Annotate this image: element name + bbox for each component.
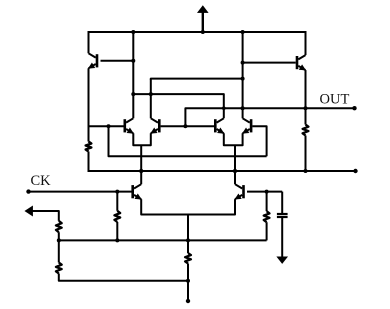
wire bottom rail <box>59 274 188 281</box>
ground VEE arrow <box>277 257 287 264</box>
junction dot Q2 base / node B <box>241 61 245 65</box>
wire H4 cross-couple <box>151 79 243 80</box>
transistor Q8 <box>235 184 245 199</box>
terminal dot OUT end <box>352 106 356 110</box>
wire pair1 tail <box>140 145 142 171</box>
svg-text:OUT: OUT <box>320 92 350 108</box>
wire OUT line <box>185 108 354 126</box>
power VCC arrow <box>198 6 208 32</box>
wire R7 to rail <box>266 222 268 240</box>
wire cap drop <box>281 192 283 213</box>
wire VCC top rail <box>89 31 306 33</box>
svg-text:CK: CK <box>31 173 52 189</box>
junction dot node A H5 <box>131 92 135 96</box>
terminal dot mid rail end <box>353 169 357 173</box>
transistor Q7 <box>131 184 141 199</box>
wire Q2 base <box>243 62 296 64</box>
wire base link Q4-Q5 <box>161 125 214 127</box>
terminal arrow left <box>25 206 33 216</box>
wire ck pair emitter tub <box>141 199 235 214</box>
wire node B vertical <box>242 32 244 108</box>
wire pair1 base left <box>88 125 124 127</box>
wire H5 cross-couple <box>133 94 224 118</box>
junction dot bottom rail <box>186 279 190 283</box>
wire R4 to rail <box>58 232 60 240</box>
wire R2 to mid rail <box>305 136 307 173</box>
wire Q6 base corner <box>252 126 266 156</box>
wire Q2 collector to rail <box>305 31 307 55</box>
wire Q2 emitter to OUT <box>305 70 307 108</box>
junction dot Q1 base / node A <box>131 59 135 63</box>
junction dot R4 rail <box>57 238 61 242</box>
transistor Q6 <box>243 118 253 133</box>
resistor R3 <box>114 211 120 222</box>
transistor Q1 <box>89 53 99 68</box>
junction dot R3 rail <box>115 238 119 242</box>
wire Q2 emitter below OUT <box>305 108 307 124</box>
junction dot CK R3 <box>115 190 119 194</box>
wire CK right drop <box>266 192 268 212</box>
capacitor C1 <box>277 213 288 218</box>
wire R3 to rail <box>116 222 118 240</box>
wire Q8 collector <box>234 171 236 184</box>
junction dot mid rail T1 <box>139 169 143 173</box>
wire below R4 <box>58 240 60 262</box>
resistor R7 <box>264 211 270 222</box>
junction dot pair2 tail rail <box>233 169 237 173</box>
junction dot top rail VCC <box>201 30 205 34</box>
label CK <box>31 173 52 189</box>
wire cap to ground <box>281 218 283 258</box>
junction dot OUT emitter <box>304 106 308 110</box>
wire pair1 emitter tub <box>133 133 151 145</box>
wire Q7 collector <box>140 171 142 184</box>
terminal dot CK <box>26 189 30 193</box>
junction dot ck tail rail <box>186 238 190 242</box>
resistor R6 <box>185 253 191 264</box>
wire Q8 base right <box>247 191 282 193</box>
wire Q1 collector to rail <box>88 31 90 53</box>
resistor R2 <box>303 125 309 136</box>
wire CK line <box>29 191 133 193</box>
transistor Q2 <box>296 55 306 70</box>
resistor R1 <box>86 142 92 152</box>
junction dot mid rail right <box>304 169 308 173</box>
wire H10 cross-couple <box>109 126 267 156</box>
wire R1 to mid rail <box>88 152 90 173</box>
wire Q1 base <box>101 60 134 62</box>
resistor R5 <box>56 263 62 274</box>
wire arrow line <box>32 211 59 221</box>
wire mid rail <box>88 170 356 172</box>
wire Q6 collector <box>242 108 244 118</box>
junction dot mid rail T2 <box>233 169 237 173</box>
junction dot V3 H5 <box>149 92 153 96</box>
wire pair2 emitter tub <box>224 133 243 145</box>
wire ck tail lower <box>187 264 189 302</box>
wire ck tail upper <box>187 215 189 254</box>
junction dot CK right R7 <box>265 190 269 194</box>
transistor Q3 <box>124 118 134 133</box>
junction dot node B OUT <box>241 106 245 110</box>
transistor Q5 <box>214 118 224 133</box>
wire node A vertical <box>132 32 134 118</box>
wire CK to R3 <box>116 192 118 211</box>
label OUT <box>320 92 350 108</box>
junction dot OUT base link <box>183 124 187 128</box>
junction dot Q5 collector OUT <box>222 106 226 110</box>
wire lower rail <box>59 239 267 241</box>
transistor Q4 <box>151 118 161 133</box>
junction dot pair1 base <box>107 124 111 128</box>
wire V3 collector drop <box>150 79 152 119</box>
junction dot top rail / node B <box>241 30 245 34</box>
wire pair2 tail <box>234 145 236 171</box>
junction dot top rail / node A <box>131 30 135 34</box>
wire Q1 emitter down <box>88 68 90 141</box>
terminal dot ck tail end <box>186 299 190 303</box>
resistor R4 <box>56 221 62 232</box>
junction dot node B H4 <box>241 77 245 81</box>
junction dot pair1 tail rail <box>139 169 143 173</box>
